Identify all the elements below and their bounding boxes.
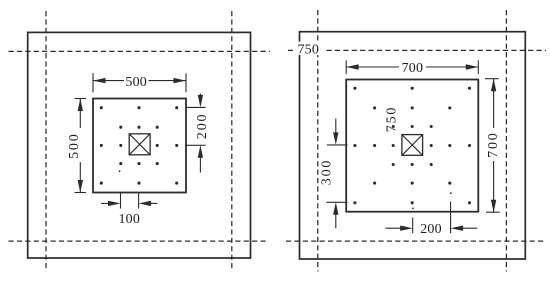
- dim 100 bottom: extension line right: [138, 193, 140, 209]
- dim 700 right: dimension line with arrows: [491, 79, 496, 213]
- dim 700 right: tick bottom: [486, 211, 500, 213]
- right pile dots middle ring: [373, 106, 451, 184]
- dim 200 right: outside arrow bottom: [198, 145, 203, 172]
- left column box with X: [129, 134, 150, 155]
- svg-text:500: 500: [67, 132, 82, 158]
- left drawing horizontal grid centerline (bottom): [9, 240, 270, 242]
- dim 700 top: dimension line with arrows: [346, 64, 478, 69]
- dim 200 bottom: extension line left: [412, 218, 414, 234]
- left drawing inner pile-cap square: [93, 99, 186, 193]
- dim 200 right: tick top: [186, 106, 206, 108]
- dim 700 top: extension line right: [477, 60, 479, 74]
- left drawing vertical grid centerline (left): [45, 11, 47, 272]
- dim 200 bottom: outside arrow right: [451, 226, 478, 231]
- dim 200 bottom: extension line right: [450, 202, 452, 234]
- right pile dots inner ring: [392, 125, 433, 166]
- right drawing vertical grid centerline (left): [317, 10, 319, 272]
- dim 300 left: outside arrow top: [333, 119, 338, 145]
- left pile dots inner ring: [119, 126, 159, 166]
- dim 500 top: dimension line with arrows: [93, 78, 186, 83]
- left drawing horizontal grid centerline (top): [9, 50, 271, 52]
- dim 500 top: extension line left: [92, 73, 94, 92]
- grid line label 750 backing: [295, 42, 324, 56]
- dim 300 left: tick bottom: [326, 201, 347, 203]
- dim 200 bottom: outside arrow left: [386, 226, 413, 231]
- dim 200 right: tick bottom: [186, 144, 206, 146]
- svg-text:300: 300: [319, 159, 334, 185]
- dim 300 left: tick top: [327, 144, 348, 146]
- svg-text:750: 750: [385, 106, 400, 132]
- svg-text:500: 500: [125, 75, 147, 90]
- right drawing vertical grid centerline (right): [505, 10, 507, 272]
- svg-text:700: 700: [486, 131, 501, 157]
- dim 700 right: tick top: [485, 78, 499, 80]
- left drawing vertical grid centerline (right): [231, 11, 233, 272]
- svg-text:700: 700: [402, 61, 424, 76]
- right drawing inner pile-cap square: [346, 80, 478, 212]
- right drawing horizontal grid centerline (top, with 750 label gap): [288, 49, 546, 51]
- left pile dots outer ring: [100, 106, 179, 185]
- dim 500 left: tick top: [75, 98, 87, 100]
- right small stray dot B: [412, 208, 414, 210]
- left small stray dot: [119, 170, 121, 172]
- right column box with X: [402, 135, 423, 156]
- svg-text:200: 200: [195, 113, 210, 139]
- left drawing outer slab square: [28, 32, 251, 258]
- right small stray dot A: [450, 192, 452, 194]
- dim 100 bottom: extension line left: [120, 193, 122, 209]
- right pile dots outer ring: [353, 87, 471, 205]
- right drawing horizontal grid centerline (bottom): [286, 240, 546, 242]
- dim 700 top: extension line left: [345, 60, 347, 74]
- dim 300 left: outside arrow bottom: [333, 202, 338, 228]
- svg-text:100: 100: [118, 212, 140, 227]
- dim 200 right: outside arrow top: [198, 94, 203, 108]
- svg-text:200: 200: [420, 222, 442, 237]
- svg-text:750: 750: [297, 43, 319, 58]
- right drawing outer slab square: [300, 32, 526, 259]
- dim 100 bottom: outside arrow right: [139, 201, 158, 206]
- dim 500 left: dimension line with arrows: [78, 99, 83, 193]
- dim 100 bottom: outside arrow left: [101, 201, 121, 206]
- dim 500 top: extension line right: [185, 73, 187, 92]
- dim 500 left: tick bottom: [75, 192, 87, 194]
